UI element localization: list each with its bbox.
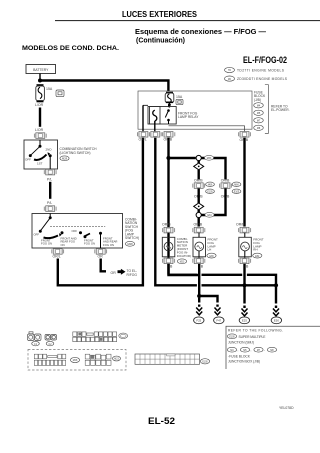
svg-text:LH: LH xyxy=(208,248,212,252)
svg-text:FOG ON: FOG ON xyxy=(84,242,95,246)
svg-text:P/L: P/L xyxy=(47,177,52,181)
svg-text:LAMP RELAY: LAMP RELAY xyxy=(178,115,199,119)
svg-text:OR: OR xyxy=(111,271,117,275)
svg-text:OFF: OFF xyxy=(34,233,40,237)
svg-text:,: , xyxy=(251,348,252,352)
svg-text:M66: M66 xyxy=(208,185,213,187)
svg-text:JUNCTION BOX (J/B): JUNCTION BOX (J/B) xyxy=(228,359,260,363)
svg-text:E50: E50 xyxy=(274,319,279,323)
svg-text:JUNCTION (SMJ): JUNCTION (SMJ) xyxy=(228,341,254,345)
svg-text:BATTERY: BATTERY xyxy=(33,68,49,72)
svg-text:MODELOS DE COND. DCHA.: MODELOS DE COND. DCHA. xyxy=(22,45,119,52)
svg-text:(LIGHTING SWITCH): (LIGHTING SWITCH) xyxy=(60,151,91,155)
svg-text:LUCES EXTERIORES: LUCES EXTERIORES xyxy=(122,10,197,19)
svg-text:FOG ON: FOG ON xyxy=(103,243,114,247)
svg-text:R/FOG: R/FOG xyxy=(127,273,138,277)
svg-text:OR/B: OR/B xyxy=(162,222,171,226)
svg-text:15A: 15A xyxy=(176,95,183,99)
svg-text:M66: M66 xyxy=(234,185,239,187)
svg-text:ON: ON xyxy=(61,243,65,247)
svg-text:M28: M28 xyxy=(73,360,78,362)
svg-text:B: B xyxy=(201,264,204,268)
svg-text:(J/B): (J/B) xyxy=(254,98,261,102)
svg-text:EL-POWER.: EL-POWER. xyxy=(271,108,290,112)
svg-text:TD27TI ENGINE MODELS: TD27TI ENGINE MODELS xyxy=(237,69,285,73)
svg-text:E34: E34 xyxy=(207,215,212,217)
svg-text:REFER TO THE FOLLOWING.: REFER TO THE FOLLOWING. xyxy=(228,329,283,333)
svg-text:DICATOR): DICATOR) xyxy=(177,254,191,258)
svg-text:E105: E105 xyxy=(207,192,213,194)
svg-text:SWITCH): SWITCH) xyxy=(125,236,139,240)
svg-text:M7: M7 xyxy=(257,120,261,123)
svg-text:OR/L: OR/L xyxy=(139,138,147,142)
svg-text:RH: RH xyxy=(253,248,257,252)
svg-text:B: B xyxy=(246,264,249,268)
svg-text:FOG ON: FOG ON xyxy=(41,242,52,246)
svg-text:(Continuación): (Continuación) xyxy=(136,35,186,44)
svg-text:M8: M8 xyxy=(270,350,274,352)
svg-text:L/OR: L/OR xyxy=(35,128,44,132)
svg-text:E105: E105 xyxy=(202,362,208,364)
svg-text:F25: F25 xyxy=(196,319,201,323)
svg-text:M33: M33 xyxy=(207,158,212,160)
svg-text:OR/B: OR/B xyxy=(194,222,203,226)
svg-text:,: , xyxy=(238,348,239,352)
svg-text:OR/B: OR/B xyxy=(194,179,203,183)
svg-text:M4: M4 xyxy=(257,105,261,108)
svg-text:E105: E105 xyxy=(229,337,235,339)
svg-text:E105: E105 xyxy=(234,192,240,194)
svg-text:E25: E25 xyxy=(242,319,247,323)
svg-text:OFF: OFF xyxy=(72,229,78,233)
svg-text:-: - xyxy=(264,348,265,352)
svg-text:OR/B: OR/B xyxy=(221,179,230,183)
svg-text:1ST: 1ST xyxy=(37,162,43,166)
svg-text:EL-F/FOG-02: EL-F/FOG-02 xyxy=(243,55,287,65)
svg-text:M7: M7 xyxy=(257,350,261,352)
svg-text:E52: E52 xyxy=(255,256,260,258)
svg-text:YEL078D: YEL078D xyxy=(279,406,294,410)
svg-text:OR/B: OR/B xyxy=(236,222,245,226)
svg-text:-FUSE BLOCK: -FUSE BLOCK xyxy=(228,354,251,358)
svg-text:M23: M23 xyxy=(114,359,119,361)
svg-text:TD: TD xyxy=(228,70,231,72)
svg-text:OR/L: OR/L xyxy=(53,255,61,259)
svg-text:L/OR: L/OR xyxy=(35,103,44,107)
svg-text:ZD30DDTI ENGINE MODELS: ZD30DDTI ENGINE MODELS xyxy=(237,77,288,81)
svg-text:E38: E38 xyxy=(209,256,214,258)
svg-text:SUPER MULTIPLE: SUPER MULTIPLE xyxy=(239,335,267,339)
svg-text:M23: M23 xyxy=(180,262,185,264)
svg-text:2ND: 2ND xyxy=(46,148,53,152)
svg-text:M4: M4 xyxy=(230,350,234,352)
svg-text:15A: 15A xyxy=(46,87,53,91)
svg-text:EL-52: EL-52 xyxy=(148,416,175,426)
svg-text:ZD: ZD xyxy=(228,79,231,81)
svg-text:M5: M5 xyxy=(243,350,247,352)
svg-text:B: B xyxy=(170,264,173,268)
svg-text:M28: M28 xyxy=(62,157,68,161)
svg-text:OFF: OFF xyxy=(25,158,31,162)
svg-text:M5: M5 xyxy=(257,112,261,115)
svg-text:OR: OR xyxy=(98,255,104,259)
svg-text:M8: M8 xyxy=(257,127,261,130)
svg-text:F47: F47 xyxy=(216,319,221,323)
svg-text:M28: M28 xyxy=(127,242,133,246)
svg-text:P/L: P/L xyxy=(47,201,52,205)
